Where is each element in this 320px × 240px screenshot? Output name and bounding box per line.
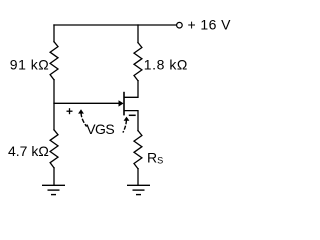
svg-text:RS: RS — [147, 150, 163, 166]
svg-text:+ 16 V: + 16 V — [188, 16, 232, 32]
label plus sign of VGS — [67, 108, 73, 114]
wire top rail — [54, 24, 176, 26]
transistor Q1 channel bar — [123, 92, 125, 116]
svg-text:91 kΩ: 91 kΩ — [10, 57, 49, 73]
wire left vertical mid segment — [53, 80, 55, 130]
ground symbol left — [42, 185, 65, 194]
svg-text:4.7 kΩ: 4.7 kΩ — [8, 143, 49, 159]
wire right vertical top segment — [137, 25, 139, 43]
resistor RS — [134, 131, 142, 169]
wire left vertical top segment — [53, 25, 55, 42]
VGS pointer arrow right (to source) — [123, 117, 129, 133]
label minus sign of VGS — [129, 114, 136, 116]
resistor R3 1.8 kΩ — [134, 43, 142, 81]
svg-text:1.8 kΩ: 1.8 kΩ — [144, 57, 188, 73]
terminal circle +16V — [177, 22, 183, 28]
VGS pointer arrow left (to gate) — [78, 109, 87, 126]
wire drain lead — [124, 81, 138, 98]
svg-text:VGS: VGS — [86, 121, 114, 137]
wire right vertical bottom segment — [137, 169, 139, 186]
wire left vertical bottom segment — [53, 168, 55, 185]
wire gate lead — [54, 102, 119, 104]
resistor R2 4.7 kΩ — [50, 130, 58, 168]
transistor Q1 gate arrowhead — [119, 100, 124, 106]
resistor R1 91 kΩ — [50, 42, 58, 80]
wire source lead — [124, 111, 138, 131]
ground symbol right — [127, 185, 150, 194]
